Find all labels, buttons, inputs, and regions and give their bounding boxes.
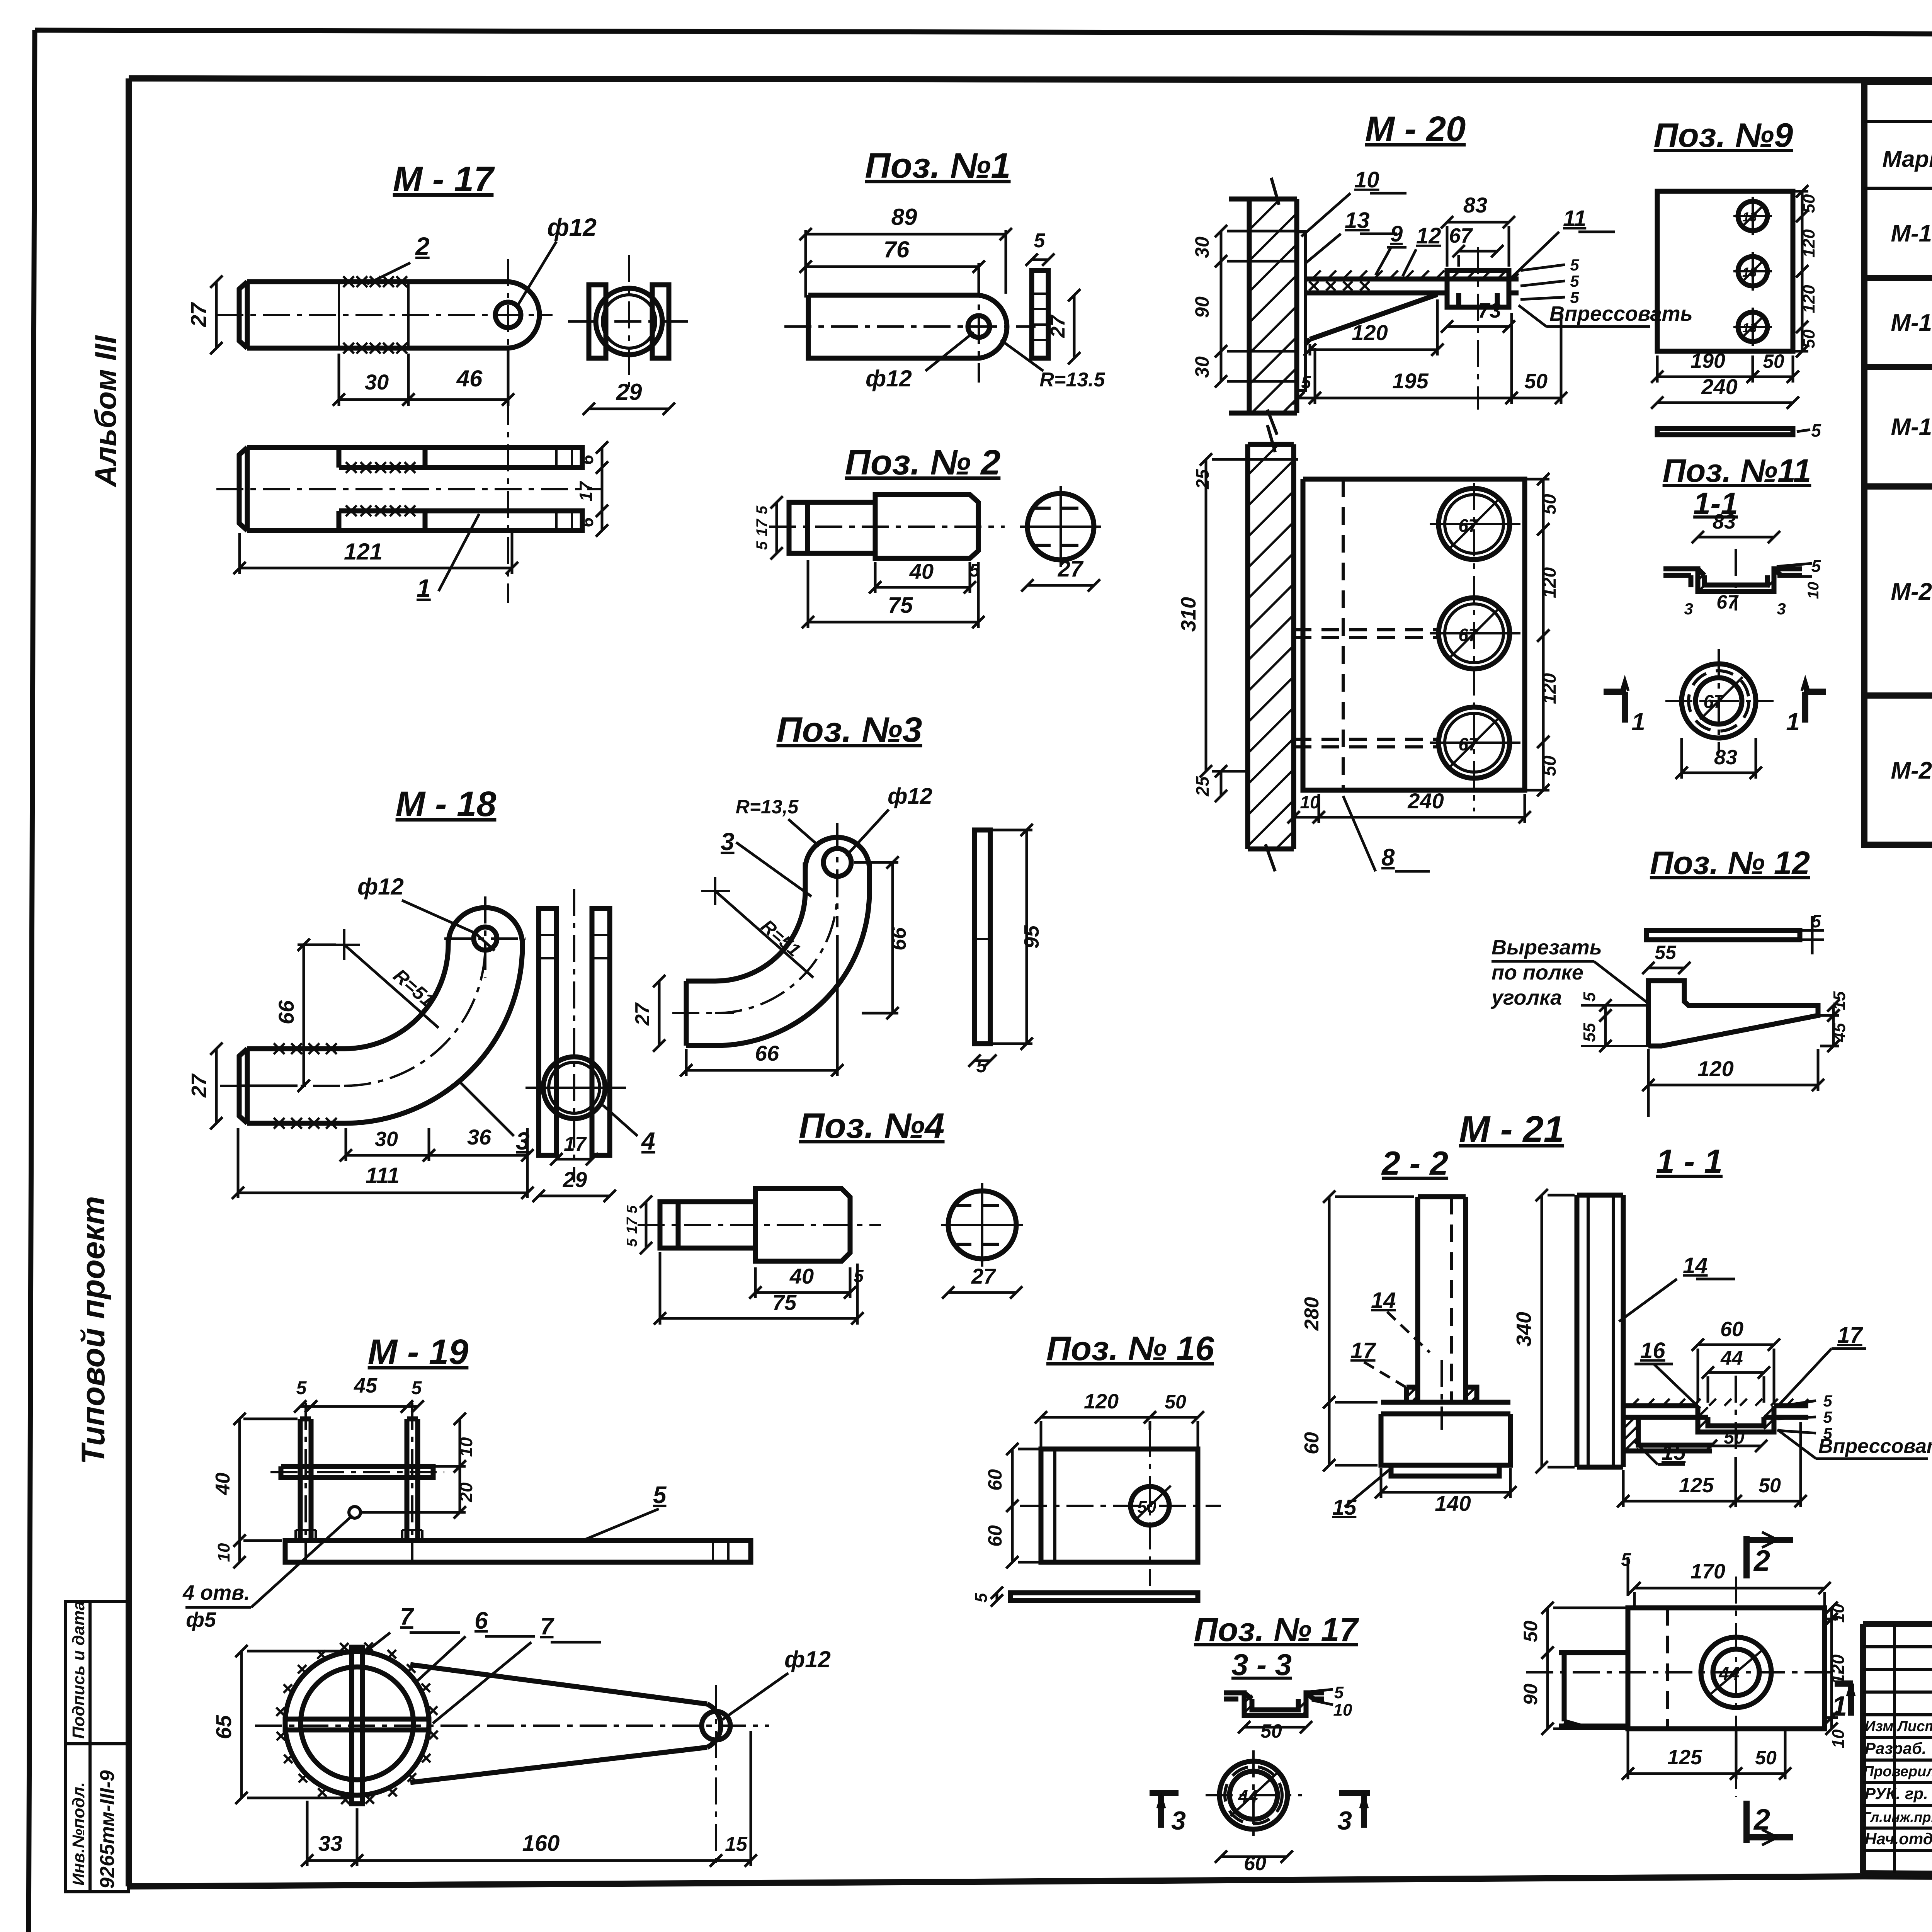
M-19 base plate <box>285 1541 751 1562</box>
label 8 <box>1343 796 1430 871</box>
label 5 <box>580 1509 659 1542</box>
svg-text:5: 5 <box>412 1378 422 1398</box>
svg-text:30: 30 <box>1191 236 1213 258</box>
dim 83 below <box>1675 767 1762 779</box>
svg-text:140: 140 <box>1435 1491 1471 1515</box>
strip <box>1010 1593 1198 1600</box>
dims 5 45 5 <box>294 1400 317 1413</box>
svg-text:5: 5 <box>1570 272 1579 290</box>
svg-text:Нач.отд.: Нач.отд. <box>1865 1830 1932 1848</box>
svg-text:3 - 3: 3 - 3 <box>1231 1648 1292 1682</box>
svg-text:17: 17 <box>564 1133 587 1155</box>
svg-text:15: 15 <box>1830 991 1849 1010</box>
right chain <box>1796 185 1808 222</box>
svg-text:83: 83 <box>1713 510 1736 533</box>
dims 83 67 <box>1441 216 1515 228</box>
svg-text:7: 7 <box>540 1613 554 1640</box>
svg-text:2: 2 <box>415 232 430 260</box>
svg-text:17: 17 <box>624 1217 640 1234</box>
three holes <box>1439 488 1510 560</box>
part Poz No16 group <box>972 1329 1221 1607</box>
circle view <box>948 1191 1016 1259</box>
svg-text:R=13,5: R=13,5 <box>736 796 799 818</box>
svg-text:Впрессовать: Впрессовать <box>1818 1435 1932 1458</box>
svg-text:Изм.Лист: Изм.Лист <box>1865 1718 1932 1735</box>
svg-text:5: 5 <box>653 1482 667 1509</box>
svg-text:М-20: М-20 <box>1891 578 1932 605</box>
svg-text:90: 90 <box>1520 1684 1541 1705</box>
svg-text:83: 83 <box>1714 746 1737 769</box>
svg-text:89: 89 <box>891 204 917 230</box>
dim 83 <box>1692 531 1780 543</box>
strip <box>1646 930 1800 940</box>
svg-text:20: 20 <box>456 1482 476 1503</box>
svg-text:М - 18: М - 18 <box>396 784 497 824</box>
part M-21 group <box>1301 1109 1932 1845</box>
dim 240 <box>1651 396 1799 409</box>
dim 55 <box>1642 962 1690 974</box>
svg-text:95: 95 <box>1020 925 1043 949</box>
vpressovat <box>1519 305 1650 327</box>
svg-text:3: 3 <box>1777 600 1786 618</box>
dim 121 <box>233 562 518 574</box>
bottom dims 10 240 <box>1287 811 1325 823</box>
svg-text:36: 36 <box>467 1125 492 1149</box>
svg-text:73: 73 <box>1478 299 1501 322</box>
svg-text:Вырезать: Вырезать <box>1492 936 1602 959</box>
vpressovat <box>1777 1430 1928 1459</box>
svg-text:13: 13 <box>1742 265 1757 280</box>
svg-text:125: 125 <box>1667 1746 1702 1769</box>
dims 10 20 <box>454 1413 466 1473</box>
hat profile <box>1224 1693 1324 1716</box>
svg-text:27: 27 <box>186 302 211 327</box>
part M-18 group <box>187 784 655 1202</box>
svg-text:2: 2 <box>1753 1544 1770 1577</box>
svg-text:76: 76 <box>884 236 910 262</box>
svg-text:9265тм-III-9: 9265тм-III-9 <box>96 1770 119 1889</box>
cross pin bar <box>281 1466 433 1478</box>
bracket top plate <box>1305 279 1519 293</box>
svg-text:2: 2 <box>1753 1803 1770 1836</box>
dim 10 left <box>233 1534 246 1568</box>
svg-text:М - 21: М - 21 <box>1459 1109 1564 1150</box>
M-17 fork view <box>239 447 425 531</box>
svg-text:Подпись и дата: Подпись и дата <box>69 1601 88 1739</box>
dims 25 <box>1215 765 1227 802</box>
1-1 column <box>1577 1195 1623 1467</box>
wall plate 13 <box>1297 232 1305 390</box>
svg-text:60: 60 <box>1720 1318 1743 1341</box>
svg-text:45: 45 <box>1830 1023 1849 1042</box>
fork section <box>539 908 610 1155</box>
upper wall <box>1229 199 1297 413</box>
svg-text:М-21: М-21 <box>1891 757 1932 784</box>
svg-text:Поз. №3: Поз. №3 <box>776 710 922 750</box>
svg-text:5: 5 <box>854 1266 864 1286</box>
svg-text:240: 240 <box>1701 374 1737 399</box>
svg-text:27: 27 <box>971 1264 997 1288</box>
label f12 <box>925 332 974 371</box>
svg-text:30: 30 <box>375 1128 398 1151</box>
svg-text:46: 46 <box>456 366 483 391</box>
svg-text:Разраб.: Разраб. <box>1865 1739 1927 1757</box>
svg-text:121: 121 <box>344 539 383 565</box>
stepped pin <box>789 495 978 558</box>
svg-text:Проверил: Проверил <box>1863 1764 1932 1780</box>
part Poz No12 group <box>1490 845 1849 1117</box>
svg-text:15: 15 <box>1662 1440 1686 1464</box>
circle <box>1219 1761 1287 1829</box>
svg-text:40: 40 <box>909 559 934 583</box>
dim 66 vertical <box>298 939 310 1092</box>
labels 16 17 <box>1634 1364 1700 1408</box>
svg-text:5: 5 <box>1823 1392 1832 1410</box>
svg-text:120: 120 <box>1799 285 1818 313</box>
svg-text:7: 7 <box>400 1604 414 1630</box>
svg-text:60: 60 <box>984 1469 1006 1491</box>
2-2 base <box>1381 1387 1510 1476</box>
label 15 50 <box>1634 1441 1685 1464</box>
teardrop tangents <box>410 1665 707 1782</box>
svg-text:340: 340 <box>1512 1312 1536 1347</box>
svg-text:13: 13 <box>1742 210 1757 224</box>
svg-text:М - 17: М - 17 <box>393 160 495 199</box>
dim 310 <box>1200 453 1212 777</box>
dim 27 <box>210 276 223 354</box>
svg-text:5: 5 <box>624 1238 640 1247</box>
svg-text:30: 30 <box>365 370 389 394</box>
svg-text:90: 90 <box>1191 296 1213 318</box>
svg-text:Инв.№подл.: Инв.№подл. <box>69 1782 88 1886</box>
svg-text:14: 14 <box>1371 1288 1396 1313</box>
svg-text:5: 5 <box>1811 420 1821 440</box>
svg-text:ф12: ф12 <box>547 213 597 241</box>
R=51 leader <box>344 945 439 1028</box>
dim 27 <box>210 1043 223 1129</box>
svg-text:5: 5 <box>624 1205 640 1214</box>
svg-text:66: 66 <box>274 1000 298 1024</box>
svg-text:Гл.инж.пр.: Гл.инж.пр. <box>1862 1809 1932 1825</box>
svg-text:111: 111 <box>366 1163 400 1188</box>
svg-text:29: 29 <box>563 1167 587 1192</box>
stepped pin <box>660 1189 850 1261</box>
svg-text:10: 10 <box>214 1543 233 1562</box>
svg-text:27: 27 <box>1047 315 1069 338</box>
label 3 <box>460 1082 514 1136</box>
svg-text:13: 13 <box>1742 321 1757 335</box>
side strip <box>1032 270 1048 358</box>
svg-text:120: 120 <box>1352 320 1388 345</box>
diagonal brace <box>1305 294 1437 344</box>
label 3 <box>736 842 811 896</box>
svg-text:1: 1 <box>1832 1691 1847 1722</box>
part Poz No2 group <box>753 443 1101 628</box>
hat insert <box>1698 1406 1774 1432</box>
bend center cross <box>329 929 360 960</box>
svg-text:Поз. №9: Поз. №9 <box>1654 116 1793 154</box>
svg-text:М-19: М-19 <box>1891 414 1932 440</box>
svg-text:190: 190 <box>1690 349 1725 372</box>
svg-text:120: 120 <box>1697 1056 1733 1081</box>
svg-text:10: 10 <box>1354 167 1379 192</box>
dim 66 bottom <box>680 1064 844 1077</box>
part M-17 group <box>186 160 692 603</box>
part Poz No17 group <box>1150 1611 1370 1875</box>
svg-text:310: 310 <box>1177 597 1200 632</box>
svg-text:75: 75 <box>888 593 913 618</box>
dim 120 <box>1304 344 1444 356</box>
svg-text:Поз. № 17: Поз. № 17 <box>1194 1611 1359 1648</box>
svg-text:3: 3 <box>1337 1806 1352 1835</box>
svg-text:55: 55 <box>1655 942 1677 963</box>
angle under shelf <box>1623 1417 1712 1451</box>
stamp box bottom-left <box>65 1601 128 1892</box>
svg-text:5: 5 <box>1621 1549 1631 1570</box>
part Poz No3 group <box>631 710 1043 1077</box>
svg-text:25: 25 <box>1192 776 1213 797</box>
svg-text:Впрессовать: Впрессовать <box>1549 302 1693 325</box>
svg-text:4 отв.: 4 отв. <box>182 1581 250 1604</box>
svg-text:120: 120 <box>1539 567 1560 598</box>
svg-text:1: 1 <box>1786 708 1800 736</box>
labels 14 17 <box>1387 1312 1430 1352</box>
right chain 50 120 120 50 <box>1537 473 1549 536</box>
dims 60 44 <box>1692 1338 1780 1351</box>
M-19 cam view <box>285 1651 429 1795</box>
svg-text:50: 50 <box>1520 1621 1541 1642</box>
svg-text:25: 25 <box>1192 469 1213 490</box>
svg-text:66: 66 <box>887 927 910 951</box>
circle view <box>1027 493 1094 560</box>
svg-text:67: 67 <box>1716 591 1739 613</box>
dim 76 <box>799 260 985 273</box>
lower wall view <box>1248 444 1294 849</box>
section marks 2 2 1 <box>1747 1536 1793 1578</box>
svg-text:50: 50 <box>1539 755 1560 776</box>
svg-text:1 - 1: 1 - 1 <box>1656 1143 1723 1180</box>
svg-text:50: 50 <box>1759 1475 1781 1497</box>
dashed pins <box>1294 630 1437 747</box>
svg-text:11: 11 <box>1563 206 1586 231</box>
label f12 <box>518 241 556 305</box>
svg-text:44: 44 <box>1720 1347 1743 1369</box>
svg-text:Поз. № 2: Поз. № 2 <box>845 443 1001 482</box>
svg-text:17: 17 <box>1837 1323 1863 1348</box>
svg-text:1: 1 <box>417 574 431 602</box>
svg-text:ф5: ф5 <box>186 1608 216 1631</box>
svg-text:Марка: Марка <box>1882 146 1932 172</box>
svg-text:2 - 2: 2 - 2 <box>1381 1145 1448 1182</box>
svg-text:50: 50 <box>1755 1747 1777 1769</box>
svg-text:РУК. гр.: РУК. гр. <box>1865 1784 1928 1803</box>
dims 6 17 6 <box>596 441 608 474</box>
svg-text:15: 15 <box>1332 1495 1357 1519</box>
svg-text:50: 50 <box>1539 494 1560 515</box>
svg-text:5: 5 <box>1580 992 1599 1002</box>
svg-text:5: 5 <box>753 541 770 550</box>
lower plate <box>1303 479 1525 790</box>
svg-text:170: 170 <box>1690 1560 1725 1583</box>
svg-text:10: 10 <box>1300 792 1320 812</box>
svg-text:280: 280 <box>1301 1297 1323 1331</box>
svg-text:16: 16 <box>1640 1338 1665 1363</box>
svg-text:М-17: М-17 <box>1891 220 1932 247</box>
svg-text:Поз. № 16: Поз. № 16 <box>1046 1329 1214 1367</box>
svg-text:10: 10 <box>1829 1729 1848 1748</box>
svg-text:М - 19: М - 19 <box>368 1332 469 1372</box>
svg-text:5: 5 <box>1334 1683 1344 1702</box>
svg-text:27: 27 <box>1058 556 1084 582</box>
dim 73 <box>1441 320 1515 333</box>
svg-text:240: 240 <box>1407 789 1444 813</box>
dim 65 <box>235 1645 248 1804</box>
studs <box>300 1419 418 1541</box>
svg-text:5: 5 <box>1301 372 1311 392</box>
svg-text:5: 5 <box>1823 1408 1832 1426</box>
right insert <box>1430 270 1519 307</box>
svg-text:уголка: уголка <box>1490 986 1562 1009</box>
svg-text:3: 3 <box>1684 600 1693 618</box>
svg-text:10: 10 <box>1333 1701 1352 1719</box>
svg-text:10: 10 <box>456 1437 476 1457</box>
svg-text:14: 14 <box>1683 1253 1708 1278</box>
cam vertical bar <box>352 1647 362 1804</box>
svg-text:60: 60 <box>1244 1852 1266 1875</box>
svg-text:83: 83 <box>1463 193 1487 217</box>
svg-text:R=13.5: R=13.5 <box>1039 369 1105 391</box>
svg-text:4: 4 <box>641 1127 655 1155</box>
bottom dims 5 195 50 <box>1292 392 1321 404</box>
circle view <box>1682 664 1756 738</box>
part M-20 group <box>1177 109 1693 871</box>
part M-19 group <box>182 1332 831 1870</box>
svg-text:ф12: ф12 <box>888 784 932 809</box>
svg-text:ф12: ф12 <box>866 366 912 391</box>
label 4 <box>603 1105 638 1136</box>
svg-text:6: 6 <box>474 1607 488 1634</box>
part Poz No4 group <box>624 1106 1023 1325</box>
svg-text:75: 75 <box>772 1290 797 1315</box>
svg-text:50: 50 <box>1724 1427 1745 1448</box>
label f12 <box>846 810 889 856</box>
label f12 cam <box>723 1673 788 1719</box>
shelf plate <box>1623 1406 1808 1417</box>
part Poz No1 group <box>784 146 1105 391</box>
title block <box>1862 1624 1932 1882</box>
dims 33 160 15 <box>301 1854 363 1867</box>
svg-text:27: 27 <box>187 1073 211 1098</box>
svg-text:Поз. №4: Поз. №4 <box>799 1106 944 1146</box>
hat profile <box>1663 569 1802 592</box>
marks 3 3 <box>1150 1793 1179 1828</box>
svg-text:45: 45 <box>354 1374 378 1397</box>
svg-text:50: 50 <box>1524 370 1548 393</box>
label f12 <box>402 900 495 951</box>
hook body <box>239 939 522 1123</box>
svg-text:Поз. № 12: Поз. № 12 <box>1650 845 1810 881</box>
svg-text:10: 10 <box>1805 582 1822 599</box>
svg-text:50: 50 <box>1799 194 1818 213</box>
plan view <box>1628 1608 1825 1729</box>
svg-text:50: 50 <box>1138 1498 1156 1517</box>
svg-text:М-18: М-18 <box>1891 310 1932 336</box>
section marks 1-1 <box>1604 692 1625 723</box>
svg-text:17: 17 <box>1350 1338 1376 1363</box>
svg-text:9: 9 <box>1390 221 1403 247</box>
dim 89 <box>799 228 1012 240</box>
2-2 column <box>1418 1197 1466 1402</box>
svg-text:50: 50 <box>1763 350 1784 372</box>
svg-text:55: 55 <box>1580 1023 1599 1042</box>
svg-text:1: 1 <box>1631 708 1645 736</box>
svg-text:Типовой проект: Типовой проект <box>75 1196 111 1464</box>
dims right 10 120 10 <box>1825 1602 1838 1625</box>
label 2 <box>367 263 410 284</box>
svg-text:40: 40 <box>212 1473 234 1495</box>
svg-text:3: 3 <box>1171 1806 1186 1835</box>
bottom strip <box>1657 429 1793 435</box>
left margin: album text <box>75 335 122 1464</box>
svg-text:67: 67 <box>1458 734 1479 754</box>
dim 40 <box>233 1413 246 1547</box>
svg-text:6: 6 <box>577 517 597 527</box>
svg-text:120: 120 <box>1799 229 1818 258</box>
part Poz No11 group <box>1604 452 1826 779</box>
svg-text:40: 40 <box>789 1264 814 1288</box>
svg-text:5: 5 <box>1811 557 1821 576</box>
140 dim <box>1375 1486 1517 1498</box>
svg-text:33: 33 <box>318 1831 342 1855</box>
svg-text:50: 50 <box>1165 1391 1186 1413</box>
svg-text:50: 50 <box>1260 1720 1282 1742</box>
svg-text:5: 5 <box>753 505 770 514</box>
svg-text:60: 60 <box>1301 1432 1323 1454</box>
svg-text:120: 120 <box>1828 1654 1848 1684</box>
label R=13.5 <box>788 819 819 846</box>
dims 170 5 <box>1628 1582 1831 1594</box>
cam horizontal bar <box>285 1719 429 1730</box>
svg-text:50: 50 <box>1799 329 1818 348</box>
M-17 top view bar <box>239 282 539 348</box>
svg-text:ф12: ф12 <box>784 1646 831 1672</box>
svg-text:ф12: ф12 <box>357 874 404 900</box>
svg-text:13: 13 <box>1345 208 1370 233</box>
labels 10 13 9 12 11 <box>1301 193 1406 236</box>
svg-text:17: 17 <box>576 481 596 502</box>
svg-text:5: 5 <box>296 1378 307 1398</box>
svg-text:66: 66 <box>755 1041 779 1065</box>
left flange <box>1559 1653 1628 1726</box>
svg-text:5: 5 <box>972 1593 991 1602</box>
svg-text:Поз. №1: Поз. №1 <box>865 146 1010 185</box>
label 14 <box>1619 1279 1735 1321</box>
small dims <box>1599 999 1612 1022</box>
svg-text:27: 27 <box>631 1002 654 1026</box>
dims 50 90 <box>1541 1602 1554 1659</box>
svg-text:15: 15 <box>725 1833 748 1855</box>
svg-text:30: 30 <box>1191 356 1213 378</box>
svg-text:3: 3 <box>721 828 735 855</box>
svg-text:67: 67 <box>1458 515 1479 536</box>
svg-text:160: 160 <box>522 1831 560 1856</box>
svg-text:Альбом III: Альбом III <box>88 335 122 488</box>
dims 125 50 bottom <box>1622 1767 1742 1780</box>
svg-text:5: 5 <box>1034 230 1046 252</box>
dims 30 36 111 <box>340 1149 435 1162</box>
bottom dims 190 50 <box>1651 371 1759 383</box>
svg-text:Поз. №11: Поз. №11 <box>1663 452 1811 489</box>
